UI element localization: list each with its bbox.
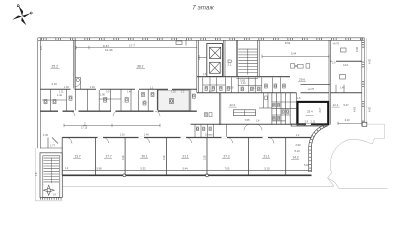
right rooms partition walls [330, 60, 361, 62]
wall room B / elevator lobby [196, 40, 198, 93]
misc dimension speckles [64, 62, 345, 170]
wall shafts / small room [223, 40, 225, 76]
bottom rooms partitions [62, 138, 286, 176]
svg-text:17.7: 17.7 [106, 155, 112, 159]
svg-text:1.11: 1.11 [241, 82, 246, 85]
svg-text:1.46: 1.46 [340, 87, 345, 90]
left outside staircase enclosure [40, 153, 62, 198]
wc cluster mid corridor [195, 124, 226, 137]
door vestibule room A bottom [75, 78, 80, 90]
partition rotated dim texts [35, 155, 207, 176]
curved window band wall bottom-right [309, 124, 328, 172]
star symbol [43, 185, 54, 195]
upper rooms bottom wall [40, 88, 197, 90]
shaded room [158, 90, 189, 111]
wall small room / stair [235, 40, 237, 76]
windowed wall segment y=125 right [291, 123, 328, 125]
partitions right of shaded room [190, 89, 192, 110]
thick walled room [298, 102, 329, 124]
svg-text:1.11: 1.11 [59, 91, 64, 94]
svg-text:12.1: 12.1 [333, 103, 339, 107]
svg-text:4.92: 4.92 [353, 106, 357, 112]
corridor left end / stair vestibule [40, 138, 62, 149]
room B top fixtures [176, 40, 186, 45]
dim line right bottom [338, 122, 362, 125]
svg-text:4.10: 4.10 [343, 63, 349, 67]
svg-text:5.44: 5.44 [183, 166, 189, 170]
svg-text:5.10: 5.10 [265, 166, 271, 170]
svg-text:21.1: 21.1 [183, 155, 189, 159]
svg-text:25.4: 25.4 [307, 110, 313, 114]
north arrow [12, 5, 32, 26]
svg-text:3.02: 3.02 [204, 155, 207, 160]
svg-text:21.1: 21.1 [264, 155, 270, 159]
left staircase rungs [44, 158, 60, 183]
svg-text:17.7: 17.7 [129, 44, 135, 48]
svg-text:4.10: 4.10 [345, 118, 351, 122]
bottom wall [62, 169, 311, 171]
svg-text:1.90: 1.90 [100, 94, 105, 97]
svg-text:7.05: 7.05 [245, 118, 251, 122]
svg-text:2.11: 2.11 [311, 121, 316, 124]
lobby room 22.2 left wall [219, 93, 221, 125]
svg-text:1.42: 1.42 [57, 94, 62, 97]
svg-text:4.92: 4.92 [368, 59, 371, 64]
svg-text:3.02: 3.02 [122, 155, 125, 160]
wall stair / room C [257, 40, 259, 77]
svg-text:10 мест: 10 мест [205, 134, 214, 137]
extra cells near cluster top [259, 93, 272, 108]
top window band wall [38, 37, 364, 39]
svg-text:5.32: 5.32 [141, 166, 147, 170]
svg-text:1.77: 1.77 [50, 145, 55, 148]
bathroom cluster middle right [272, 93, 297, 125]
svg-text:22.2: 22.2 [230, 103, 236, 107]
svg-text:1.46: 1.46 [127, 91, 132, 94]
svg-text:5.10: 5.10 [304, 164, 309, 167]
south wall of lobby band [191, 123, 309, 125]
svg-text:3.02: 3.02 [163, 155, 166, 160]
elevator shaft E1 [210, 47, 221, 58]
svg-text:27.2: 27.2 [224, 155, 230, 159]
lobby shelf line [198, 57, 207, 59]
elevator shaft block [207, 44, 223, 77]
svg-text:2.10: 2.10 [120, 134, 125, 137]
svg-text:8.10: 8.10 [295, 149, 301, 153]
svg-text:2.9: 2.9 [305, 121, 309, 124]
svg-text:4.92: 4.92 [368, 107, 371, 112]
wall under elevators and stair [197, 76, 290, 78]
corridor top wall [40, 110, 197, 112]
svg-text:13.7: 13.7 [75, 155, 81, 159]
svg-text:25.2: 25.2 [52, 65, 59, 69]
wall room C / right rooms [328, 40, 330, 124]
room C fixtures [291, 64, 310, 68]
svg-text:2.1: 2.1 [228, 63, 232, 67]
svg-text:7.05: 7.05 [225, 166, 231, 170]
svg-text:14.2: 14.2 [293, 156, 299, 160]
corridor bottom wall [62, 137, 311, 139]
svg-text:1.46: 1.46 [144, 134, 149, 137]
svg-text:5.44: 5.44 [291, 52, 297, 56]
svg-text:1.46: 1.46 [90, 86, 95, 89]
context bottom-right arc outline [328, 124, 385, 188]
context outline lower floor left [35, 38, 387, 201]
small rooms cluster below stairs [203, 78, 281, 93]
corner box right wall bottom [362, 122, 367, 126]
svg-text:1.03: 1.03 [64, 86, 69, 89]
elevator shaft E2 [210, 62, 221, 73]
door gaps white [58, 61, 336, 137]
svg-text:+4.70: +4.70 [333, 42, 340, 46]
svg-text:5.98: 5.98 [97, 166, 103, 170]
right window band wall [361, 38, 363, 126]
wall room A / room B [73, 40, 75, 89]
bathroom band partitions left [42, 89, 157, 110]
middle top wall over lobby [197, 92, 297, 94]
svg-text:7 этаж: 7 этаж [192, 5, 214, 12]
svg-text:38.2: 38.2 [137, 65, 144, 69]
corridor dimension line [64, 124, 160, 127]
dimension line big room B [76, 46, 197, 50]
svg-text:4.10: 4.10 [197, 54, 201, 60]
svg-text:20.1: 20.1 [142, 155, 148, 159]
room label underlines [51, 69, 340, 160]
hatched strip bottom of stair enclosure [40, 197, 62, 199]
counter in lobby [233, 110, 255, 116]
svg-text:+4.70: +4.70 [308, 87, 315, 91]
corridor door swing marks [70, 111, 262, 130]
svg-text:29.6: 29.6 [299, 78, 305, 82]
right rooms fixtures [336, 48, 346, 93]
svg-text:1.10: 1.10 [171, 91, 176, 94]
svg-text:17.15: 17.15 [81, 127, 88, 130]
svg-text:2.17: 2.17 [209, 90, 214, 93]
svg-text:4.5: 4.5 [39, 46, 43, 50]
columns on bottom facade [123, 174, 126, 177]
svg-text:1.35: 1.35 [43, 134, 48, 137]
svg-text:3.07: 3.07 [319, 107, 322, 112]
toilets cluster [205, 84, 285, 91]
svg-text:11.43: 11.43 [105, 48, 113, 52]
toilets left band [44, 93, 154, 106]
bottom rooms door swings [66, 138, 274, 144]
staircase center rungs [238, 49, 257, 75]
svg-text:5.27: 5.27 [344, 103, 350, 107]
svg-text:2.90: 2.90 [296, 143, 302, 147]
svg-text:8.52: 8.52 [285, 41, 291, 45]
left wall [37, 38, 39, 148]
svg-text:2.16: 2.16 [52, 82, 58, 86]
svg-text:4.56: 4.56 [355, 46, 359, 52]
